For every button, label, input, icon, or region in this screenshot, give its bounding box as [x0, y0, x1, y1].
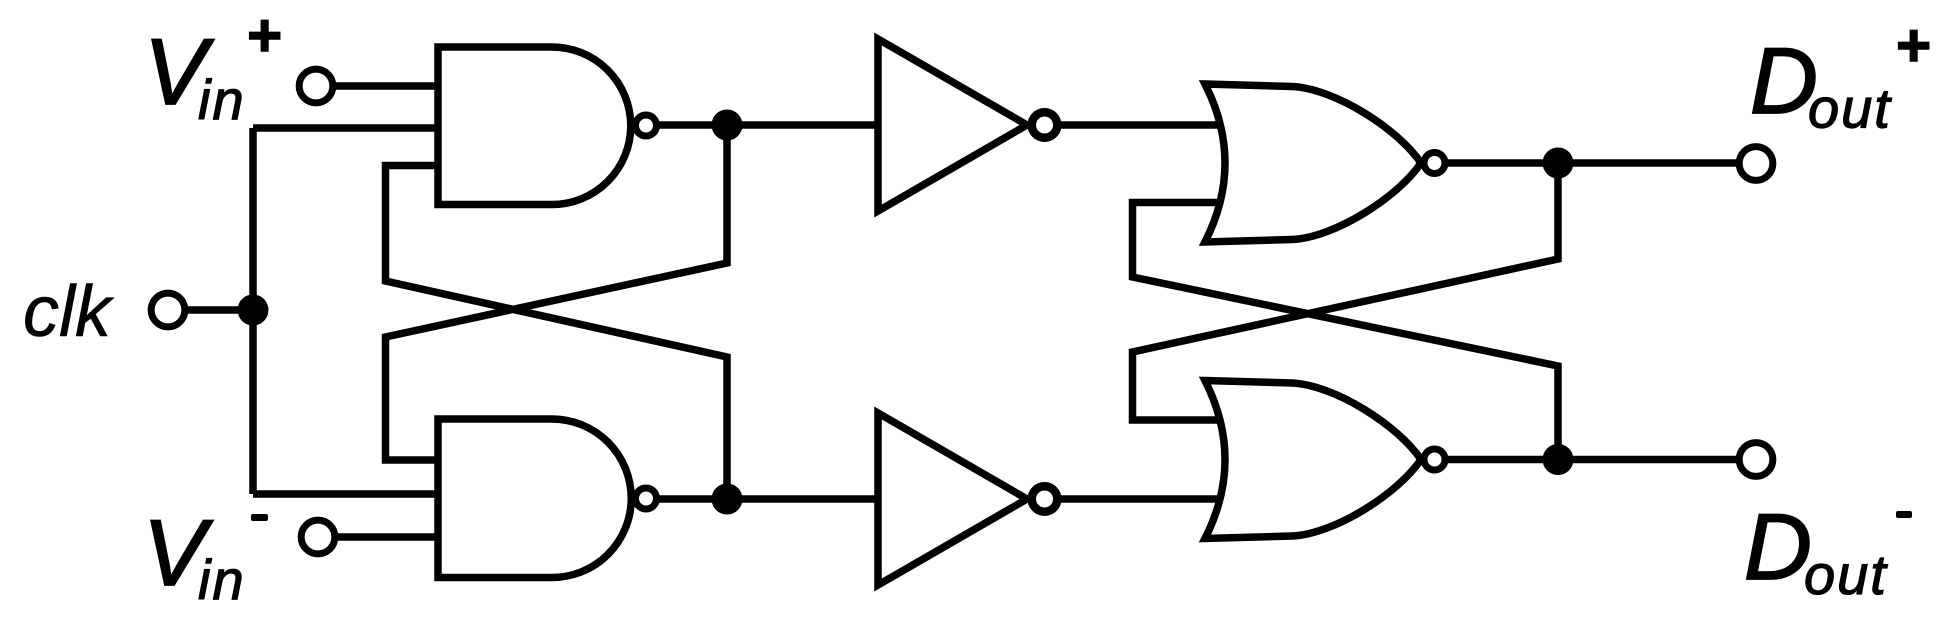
svg-text:+: + — [246, 2, 281, 69]
junction node Q — [1543, 444, 1574, 475]
bubble on NOR1 output — [1424, 153, 1445, 174]
nand gate G1 — [438, 47, 631, 205]
svg-text:in: in — [198, 68, 246, 131]
label Dout- — [1744, 494, 1912, 606]
wire NOR1 output to Dout+ terminal — [1448, 159, 1755, 167]
inverter I1 — [878, 39, 1027, 211]
junction node P — [1543, 148, 1574, 179]
junction node X — [712, 110, 743, 141]
wire node X feedback to NAND2 input 1 — [386, 125, 728, 460]
bubble on inverter I2 output — [1032, 486, 1058, 512]
wire NOR2 output to Dout- terminal — [1448, 456, 1755, 464]
inverter I2 — [878, 413, 1027, 585]
wire Vin- to NAND2 input 3 — [318, 533, 446, 541]
label Dout+ — [1750, 12, 1930, 140]
terminal Dout- — [1739, 443, 1773, 477]
terminal clk — [151, 293, 185, 327]
wire clk to NAND1 input 2 — [253, 124, 446, 132]
svg-text:in: in — [198, 548, 246, 611]
bubble on NOR2 output — [1424, 449, 1445, 470]
wire clk to NAND2 input 2 — [253, 490, 446, 498]
nor gate G4 — [1205, 381, 1421, 539]
terminal Dout+ — [1739, 147, 1773, 181]
svg-text:out: out — [1804, 543, 1888, 606]
nor gate G3 — [1205, 84, 1421, 242]
bubble on NAND2 output — [636, 488, 657, 509]
label Vin- — [143, 500, 268, 611]
svg-text:clk: clk — [23, 272, 115, 352]
junction at clk — [238, 295, 269, 326]
svg-text:out: out — [1808, 77, 1892, 140]
terminal Vin+ — [299, 69, 333, 103]
nand gate G2 — [438, 419, 631, 578]
wire node Q feedback to NOR1 input 2 — [1133, 203, 1559, 460]
wire inverter I2 to NOR2 input 2 — [1060, 495, 1235, 503]
wire Vin+ to NAND1 input 1 — [316, 82, 446, 90]
wire NAND1 output to inverter I1 — [652, 121, 886, 129]
wire clk vertical channel — [249, 128, 257, 494]
bubble on NAND1 output — [636, 115, 657, 136]
wire NAND2 output to inverter I2 — [652, 495, 886, 503]
wire node Y feedback to NAND1 input 3 — [386, 166, 728, 500]
label Vin+ — [144, 2, 281, 131]
wire inverter I1 to NOR1 input 1 — [1060, 121, 1235, 129]
junction node Y — [712, 484, 743, 515]
svg-text:+: + — [1895, 12, 1930, 79]
wire clk terminal to junction — [168, 306, 253, 314]
svg-text:D: D — [1744, 494, 1812, 599]
wire node P feedback to NOR2 input 1 — [1133, 163, 1559, 420]
terminal Vin- — [301, 520, 335, 554]
bubble on inverter I1 output — [1032, 112, 1058, 138]
